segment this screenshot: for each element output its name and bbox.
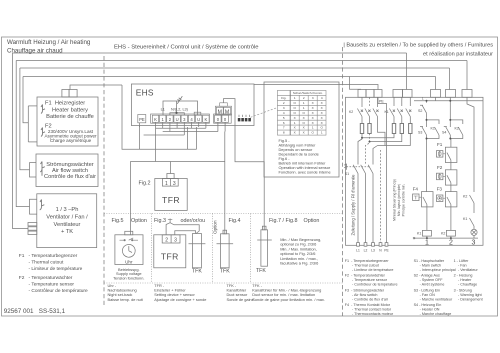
op unit EHS box [131, 84, 254, 126]
border frame [2, 37, 498, 316]
TFK fig78 crossline [257, 239, 272, 241]
svg-text:- Thermal cutout: - Thermal cutout [352, 263, 379, 267]
control line L [414, 100, 483, 102]
svg-text:Baisse temp. de nuit: Baisse temp. de nuit [108, 297, 144, 302]
contactor K1 pole1 [389, 109, 395, 117]
DIP switch table [264, 82, 339, 177]
svg-text:- Contrôleur de température: - Contrôleur de température [29, 288, 89, 294]
rail C [378, 134, 411, 146]
svg-text:Heizregister: Heizregister [55, 101, 85, 107]
svg-text:Ajustage de consigne + sonde: Ajustage de consigne + sonde [154, 297, 206, 302]
wire K1b to fuse [401, 117, 403, 124]
svg-text:- Temperature sensor: - Temperature sensor [29, 282, 75, 288]
tick 01 [217, 122, 219, 131]
rejoin K1 branch [427, 137, 440, 139]
svg-text:1: 1 [294, 121, 296, 125]
clock face [122, 244, 135, 257]
svg-text:- Warning light: - Warning light [458, 293, 482, 297]
F4 icon TK [414, 196, 418, 199]
wire N feeder dashed [369, 97, 371, 107]
svg-text:K: K [154, 117, 157, 122]
F2 contact inside [447, 175, 451, 185]
F4 icon box [413, 194, 419, 201]
wire fig3 stub to TFK [170, 223, 199, 234]
wire heater tabs to PE rail [70, 85, 122, 90]
svg-text:- Temperaturwächter: - Temperaturwächter [29, 275, 73, 281]
F2 icon theta [438, 174, 441, 178]
wire bus L1 top [13, 52, 407, 54]
supply terminal box PE [385, 243, 388, 247]
svg-text:PE: PE [379, 100, 384, 104]
link F3 icon [443, 197, 445, 199]
F1 icon theta [438, 152, 441, 156]
junction dot S3 branch [426, 119, 428, 121]
contact K1 right column [470, 218, 475, 229]
clock contact symbol [120, 238, 139, 240]
svg-text:7: 7 [283, 126, 285, 130]
main switch S1 pole1 [353, 165, 358, 174]
rail B [370, 134, 402, 142]
svg-text:K1: K1 [463, 217, 467, 221]
svg-text:3: 3 [312, 96, 314, 100]
svg-text:1: 1 [294, 96, 296, 100]
branch to K2 aux [450, 120, 463, 124]
svg-text:- Contrôleur de température: - Contrôleur de température [352, 283, 398, 287]
node S2 out [426, 118, 428, 123]
svg-text:- Heater: - Heater [458, 278, 472, 282]
F1 contact inside [447, 153, 451, 163]
terminal PE box [138, 115, 146, 123]
fan terminal stack 1 [28, 223, 37, 226]
svg-text:Ventilateur: Ventilateur [54, 222, 81, 228]
Fig.3 TFR + TFK [154, 219, 206, 268]
wire L3 step to rail C [378, 117, 386, 146]
contactor K2 pole1 [357, 109, 363, 117]
svg-text:U: U [197, 117, 200, 122]
lamp warning [471, 229, 477, 235]
header separator right section [342, 47, 344, 316]
TFR fig2 terminal split [169, 179, 171, 187]
table header row line [277, 94, 326, 96]
fuse F N [368, 124, 371, 134]
svg-text:N: N [379, 249, 382, 253]
terminal strip group box [151, 114, 210, 123]
svg-text:1: 1 [303, 101, 305, 105]
F1 icon box [437, 151, 443, 158]
svg-text:2: 2 [283, 101, 285, 105]
table enclosure wire box [264, 82, 339, 177]
svg-text:X: X [294, 126, 296, 130]
TFK fig78 connector [262, 226, 266, 230]
wire lamp to common [473, 235, 475, 238]
fuse K1 c [409, 124, 412, 134]
svg-text:X: X [303, 126, 305, 130]
svg-text:Fig.2: Fig.2 [139, 181, 151, 187]
svg-text:+ TK: + TK [61, 229, 73, 235]
coil K1 [422, 230, 431, 236]
svg-text:1: 1 [162, 117, 165, 122]
right legend [345, 259, 483, 316]
svg-text:TFK: TFK [256, 268, 266, 274]
motor module top connector [220, 103, 228, 107]
supply terminal box L1 [357, 243, 360, 247]
control labels [413, 97, 468, 236]
table legend Fig.5/Fig.6 [279, 138, 331, 175]
terminal U1 box [174, 115, 180, 122]
svg-text:Option: Option [131, 218, 147, 224]
wire K1 group feeder2 [401, 97, 403, 106]
junction dot rail A [361, 137, 363, 139]
tab A3 [374, 90, 382, 98]
fan TK contact symbol [40, 200, 45, 211]
wire K1c to fuse [409, 117, 411, 124]
svg-text:S1: S1 [345, 172, 349, 176]
dotted section separator horizontal [104, 213, 343, 215]
terminal 02 box [222, 115, 229, 122]
svg-text:et réalisation par installateu: et réalisation par installateur [423, 51, 493, 57]
collector row3 [144, 134, 185, 136]
wire heater stub bridge [27, 106, 29, 142]
svg-text:Fonctionn. avec sonde interne: Fonctionn. avec sonde interne [279, 170, 331, 175]
wire K1 group feeder3 [409, 97, 411, 106]
svg-text:92567 001 SS-531,1: 92567 001 SS-531,1 [4, 308, 66, 315]
terminal U2 cap box [194, 112, 201, 115]
TFR fig3 box [154, 235, 186, 268]
svg-text:0: 0 [217, 117, 220, 122]
EHS internal supply wire [163, 101, 198, 115]
wire N switch to fuse [369, 117, 371, 124]
svg-text:TFR: TFR [161, 252, 179, 262]
F3 contact inside [447, 197, 451, 207]
svg-text:S2 - Anlage Aus: S2 - Anlage Aus [414, 274, 440, 278]
TFR fig2 terminal group [162, 179, 178, 187]
svg-text:- Fan: - Fan [458, 263, 467, 267]
svg-text:O: O [311, 131, 314, 135]
wire fig3 stub to TFR terminal2 [166, 223, 170, 235]
wire bus4 tap to heater tabs [350, 77, 362, 90]
TFK fig4 crossline [217, 243, 234, 245]
tick tU1 [176, 122, 178, 128]
tick 02 [224, 122, 226, 131]
tab B2 [403, 90, 413, 98]
wire bus L3 top [20, 67, 450, 69]
contact K2 aux [458, 127, 463, 137]
DIP switch ticks [239, 115, 250, 117]
junction dot S4 branch [449, 119, 451, 121]
fuse F L1 [360, 124, 363, 134]
svg-text:- Thermal cutout: - Thermal cutout [29, 260, 65, 266]
tab B1 [393, 90, 403, 98]
EHS internal bridge tap [176, 101, 178, 113]
wire S4 column to F1 [450, 139, 452, 148]
svg-text:F2: F2 [19, 275, 25, 281]
svg-text:S3: S3 [418, 131, 422, 135]
TFR fig3 terminal split [170, 235, 172, 243]
terminal 4 box [188, 115, 194, 122]
TFK fig4 connector [223, 230, 227, 234]
dotted separator fig3/fig4 [212, 214, 214, 283]
svg-text:- Main switch: - Main switch [420, 263, 442, 267]
Fig.2 sensor TFR [155, 174, 187, 211]
junction dot common 2 [450, 237, 452, 239]
link F1 icon [443, 153, 446, 155]
svg-text:- Temperaturbegrenzer: - Temperaturbegrenzer [29, 253, 78, 259]
wire L1 to bottom [357, 174, 359, 247]
link F4 icon [419, 196, 422, 198]
contactor K1 pole3 [406, 109, 412, 117]
svg-text:Min. layout (principle): Min. layout (principle) [397, 184, 401, 216]
terminal K1 box [152, 115, 158, 122]
svg-text:X: X [312, 121, 314, 125]
svg-text:K1: K1 [431, 127, 435, 131]
svg-text:- Thermocontacts moteur: - Thermocontacts moteur [352, 312, 394, 316]
svg-text:X: X [321, 106, 323, 110]
svg-text:Fig.7 / Fig.8: Fig.7 / Fig.8 [269, 218, 297, 224]
EHS internal bridge 2-3 [170, 113, 184, 115]
wire heater F1 stub [28, 105, 37, 107]
terminal labels [139, 117, 227, 122]
svg-text:K1: K1 [417, 232, 421, 236]
wire tabD drop [449, 97, 451, 100]
svg-text:Uhr: Uhr [125, 259, 133, 264]
junction dot S4 [449, 100, 451, 102]
terminal 3 box [181, 115, 187, 122]
svg-text:X: X [321, 121, 323, 125]
wire F3 to K2 coil [450, 207, 452, 231]
wire N column dashed [380, 150, 382, 247]
tab A1 [358, 90, 366, 98]
wire coil K1 to common [426, 236, 428, 238]
svg-text:3 - Störung: 3 - Störung [454, 288, 472, 292]
contact K2 right column [470, 195, 475, 213]
wire bus1 right drop [406, 53, 408, 90]
terminal 00 group box [214, 114, 232, 123]
heater tab 2 [69, 90, 77, 98]
svg-text:- Limiteur de température: - Limiteur de température [29, 266, 83, 272]
fuse K1 b [400, 124, 403, 134]
supply terminal box L2 [364, 243, 367, 247]
junction dot rail B [369, 141, 371, 143]
svg-text:Sonde de gaine pour limitation: Sonde de gaine pour limitation min. / ma… [252, 297, 325, 302]
terminal 01 box [215, 115, 222, 122]
svg-text:O: O [320, 126, 323, 130]
svg-text:O: O [302, 111, 305, 115]
fan terminal stack 3 [28, 231, 37, 234]
lamp cross [472, 230, 476, 234]
svg-text:Chauffage air chaud: Chauffage air chaud [7, 47, 63, 54]
circuit enclosure box [346, 97, 484, 245]
switch S4 [444, 126, 451, 138]
wire bus3 left drop to airflow bracket [20, 68, 30, 170]
relay box F3 [445, 192, 457, 207]
wire motor module to sensor line [224, 99, 265, 230]
svg-text:X: X [312, 116, 314, 120]
EHS control unit [131, 84, 254, 126]
air flow bracket [30, 163, 37, 177]
left section: heater box [37, 90, 98, 147]
tick t4 [191, 122, 193, 128]
terminal K2 box [203, 115, 209, 122]
svg-text:K1: K1 [385, 110, 389, 114]
timer clock unit [115, 231, 143, 264]
svg-text:F1: F1 [19, 253, 25, 259]
wire tabC drop [435, 97, 437, 100]
svg-text:U: U [176, 117, 179, 122]
svg-text:8: 8 [283, 131, 285, 135]
svg-text:Minimal Steuerung (Princip): Minimal Steuerung (Princip) [393, 179, 397, 221]
wire L3 to bottom [372, 174, 374, 247]
supply terminal box L3 [372, 243, 375, 247]
svg-text:F1: F1 [45, 101, 52, 107]
svg-text:K2: K2 [463, 195, 467, 199]
rejoin K2 branch [450, 137, 463, 139]
svg-text:K2: K2 [349, 110, 353, 114]
wire K1a to fuse [393, 117, 395, 124]
svg-text:M: M [218, 109, 222, 115]
svg-text:3: 3 [283, 106, 285, 110]
clock box [115, 235, 143, 265]
motor module M1 box [216, 107, 223, 114]
svg-text:Contrôle de flux d'air: Contrôle de flux d'air [44, 174, 96, 180]
rail A [362, 134, 394, 138]
output terminal numbers [425, 240, 476, 247]
link F2 icon [443, 175, 446, 177]
svg-text:- Marche chauffage: - Marche chauffage [420, 312, 452, 316]
contactor K2 pole2 [365, 109, 371, 117]
heater battery box F1/F2 [37, 97, 98, 146]
relay box F1 [445, 147, 457, 162]
svg-text:EHS - Steuereinheit / Control: EHS - Steuereinheit / Control unit / Sys… [114, 45, 259, 51]
svg-text:L1: L1 [356, 249, 360, 253]
svg-text:K: K [205, 117, 208, 122]
wire bus 4 top [23, 76, 436, 78]
svg-text:F3 - Strömungswächter: F3 - Strömungswächter [345, 288, 385, 292]
svg-text:4: 4 [321, 96, 323, 100]
wire bus4 left drop to heater stubs [23, 77, 28, 123]
terminal tick wires below strip [130, 122, 225, 235]
wire S2S3 column down to F4 [426, 137, 428, 192]
svg-text:F4: F4 [413, 187, 419, 192]
svg-text:Option: Option [304, 218, 320, 224]
svg-text:- Heater ON: - Heater ON [420, 308, 440, 312]
svg-text:1: 1 [165, 181, 168, 187]
svg-text:S2: S2 [418, 109, 422, 113]
svg-text:- Arrêt système: - Arrêt système [420, 283, 445, 287]
wire PE drop left of EHS [122, 85, 197, 149]
svg-text:Charge asymétrique: Charge asymétrique [50, 138, 92, 143]
svg-text:3: 3 [173, 181, 176, 187]
junction dot S3 out [426, 138, 428, 140]
svg-text:X: X [312, 101, 314, 105]
left legend [19, 253, 88, 294]
junction dot S2 [426, 100, 428, 102]
clock top connector [125, 231, 133, 235]
svg-text:Batterie de chauffe: Batterie de chauffe [46, 114, 94, 120]
wire terminalU leg up [196, 127, 198, 149]
svg-text:S4: S4 [442, 131, 446, 135]
motor module M2 box [224, 107, 231, 114]
wire S4 top [449, 101, 451, 127]
TFK fig78 tube [261, 230, 268, 266]
TFR fig3 terminal group [162, 235, 180, 243]
svg-text:TFK: TFK [220, 269, 230, 275]
svg-text:- Temperature sensor: - Temperature sensor [352, 278, 388, 282]
svg-text:N/(L2, L3): N/(L2, L3) [171, 108, 189, 112]
table outline [277, 90, 326, 135]
svg-text:O: O [302, 121, 305, 125]
TFK fig3 crossline [189, 243, 206, 245]
svg-text:1: 1 [303, 106, 305, 110]
svg-text:F2 - Temperaturwächter: F2 - Temperaturwächter [345, 274, 386, 278]
svg-text:F4 - Thermo Kontakt Motor: F4 - Thermo Kontakt Motor [345, 303, 391, 307]
figure feed rail [130, 161, 224, 163]
TFK fig3 tube [193, 234, 202, 268]
junction dot S4 out [449, 138, 451, 140]
svg-text:- Interrupteur principal: - Interrupteur principal [420, 268, 456, 272]
contactor K1 pole2 [397, 109, 403, 117]
F3 icon circle [438, 196, 442, 200]
svg-text:- Chauffage: - Chauffage [458, 283, 477, 287]
tab D [446, 90, 456, 98]
svg-text:K2: K2 [441, 232, 445, 236]
dotted separator fig5/fig3 [150, 214, 152, 283]
wire L1 fuse down [358, 134, 362, 165]
svg-text:X: X [294, 116, 296, 120]
svg-text:Option: Option [212, 220, 217, 234]
fan bracket upper [30, 199, 37, 214]
tab E [462, 90, 472, 98]
svg-text:- System OFF: - System OFF [420, 278, 444, 282]
main switch S1 pole2 [361, 165, 366, 174]
svg-text:Fig.: Fig. [281, 96, 286, 100]
wire Fig4 feed [224, 132, 226, 234]
fuse K1 a [392, 124, 395, 134]
svg-text:5: 5 [283, 116, 285, 120]
header titles [7, 39, 493, 58]
air flow box [36, 154, 98, 187]
svg-text:1: 1 [321, 131, 323, 135]
table texts [281, 91, 323, 135]
air flow switch box [30, 154, 99, 187]
wire fig3 terminal3 to TFK [175, 231, 196, 235]
wire bus2 right drop [466, 61, 468, 90]
table column lines [289, 90, 291, 135]
svg-text:Heater battery: Heater battery [52, 107, 88, 113]
wire clock feed [129, 162, 131, 235]
tab A2 [366, 90, 374, 98]
svg-text:Warmluft Heizung / Air heating: Warmluft Heizung / Air heating [7, 39, 91, 46]
svg-text:X: X [303, 131, 305, 135]
switch S3 [420, 126, 427, 137]
svg-text:Fig.5: Fig.5 [112, 218, 124, 224]
header separator left section [103, 56, 105, 305]
contact K1 aux [435, 127, 440, 137]
wire L2 to bottom [365, 174, 367, 247]
wire L1 feeder [361, 97, 363, 107]
svg-text:- Thermal contact motor: - Thermal contact motor [352, 308, 392, 312]
fan box [28, 194, 97, 248]
svg-text:L2: L2 [364, 249, 368, 253]
svg-text:X: X [321, 111, 323, 115]
tick t2 [169, 122, 171, 131]
svg-text:S3 - Lüftung Ein: S3 - Lüftung Ein [414, 288, 440, 292]
dotted separator fig4/fig7 [250, 214, 252, 283]
wire L3 S1 riser [373, 146, 378, 165]
DIP switch blocks [238, 118, 251, 121]
svg-text:F1 - Temperaturbegrenzer: F1 - Temperaturbegrenzer [345, 259, 390, 263]
svg-text:3: 3 [183, 117, 186, 122]
svg-text:2: 2 [303, 96, 305, 100]
